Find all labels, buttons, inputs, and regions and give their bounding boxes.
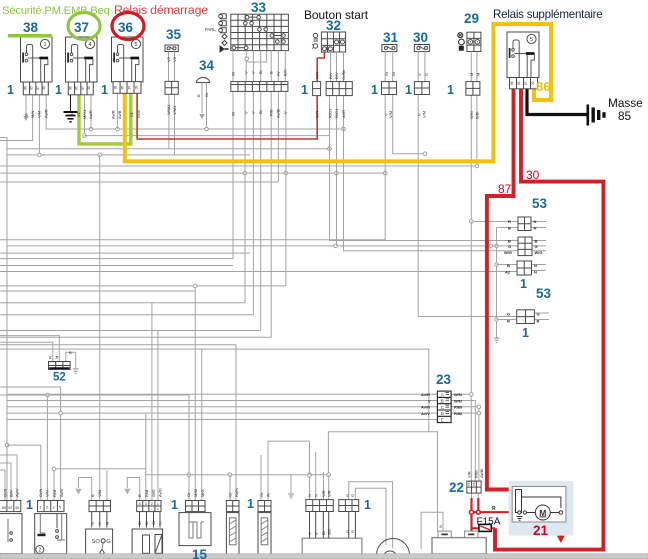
ground symbol masse 85 xyxy=(587,105,606,126)
svg-text:35: 35 xyxy=(166,27,182,42)
svg-text:M/N: M/N xyxy=(30,111,35,118)
wire 23 row A xyxy=(7,393,437,395)
wire 53 box1 right stubs xyxy=(531,221,546,223)
wire labels M conn xyxy=(307,490,332,535)
ground symbol under relay 37 xyxy=(64,95,78,122)
svg-text:B: B xyxy=(24,113,29,116)
wire bus y337.3 xyxy=(0,336,271,338)
svg-text:Gr/N: Gr/N xyxy=(38,488,43,497)
wire labels under relay 37 xyxy=(69,109,93,119)
wire labels 31 xyxy=(384,71,397,118)
svg-text:B: B xyxy=(441,399,444,404)
svg-text:22: 22 xyxy=(449,480,464,495)
svg-text:B: B xyxy=(137,494,142,497)
svg-text:R/Bl: R/Bl xyxy=(473,470,478,478)
wire to 52 left xyxy=(0,336,59,362)
switch 30 top xyxy=(414,45,429,82)
wires below 32 xyxy=(331,52,344,82)
svg-text:Gr/N: Gr/N xyxy=(3,488,8,497)
wire yellow relay36 to relais supplementaire pin 86 xyxy=(125,24,551,161)
svg-text:V: V xyxy=(97,522,102,525)
svg-text:B: B xyxy=(508,226,511,231)
svg-text:B/Bl: B/Bl xyxy=(475,112,480,119)
svg-text:Bl: Bl xyxy=(258,110,263,114)
solenoid SO OG xyxy=(86,501,113,556)
svg-text:34: 34 xyxy=(199,58,215,73)
svg-text:85: 85 xyxy=(30,86,34,90)
svg-text:30: 30 xyxy=(87,86,91,90)
svg-text:R/Bl: R/Bl xyxy=(454,411,462,416)
svg-text:R: R xyxy=(507,319,510,324)
svg-text:G: G xyxy=(535,244,538,249)
wire x189 down to 15 xyxy=(188,395,190,500)
svg-text:15: 15 xyxy=(192,547,208,559)
svg-text:W/M1: W/M1 xyxy=(166,104,171,115)
53 box1 xyxy=(518,217,531,231)
svg-text:1: 1 xyxy=(364,498,371,512)
svg-text:M: M xyxy=(104,522,109,525)
wire bus y349.1 long xyxy=(0,349,429,432)
junction long vertical x99 xyxy=(98,153,102,157)
svg-text:21: 21 xyxy=(533,523,549,538)
switch 31 top xyxy=(382,45,397,82)
wire to 52 right xyxy=(0,342,53,361)
block 29 xyxy=(467,32,481,81)
horn xyxy=(377,539,410,559)
svg-text:5: 5 xyxy=(530,37,533,43)
svg-text:R: R xyxy=(48,356,53,359)
connector 52 xyxy=(49,362,71,370)
svg-text:Av/V: Av/V xyxy=(15,488,20,497)
wire 53 box3 right stubs xyxy=(532,264,547,266)
wire labels 35 xyxy=(166,56,177,115)
wire labels 15 xyxy=(186,489,205,497)
wire bus y258.6 xyxy=(0,258,233,260)
svg-text:V: V xyxy=(417,73,422,76)
svg-text:V/M: V/M xyxy=(388,111,393,118)
wire bus y302.7 xyxy=(0,302,245,304)
svg-text:N: N xyxy=(534,270,537,275)
svg-text:Bl: Bl xyxy=(321,531,326,535)
svg-text:30: 30 xyxy=(42,86,46,90)
svg-text:85: 85 xyxy=(618,109,632,123)
svg-text:G/R: G/R xyxy=(315,72,320,79)
svg-text:15A: 15A xyxy=(467,481,471,486)
wire 23 out right 2 xyxy=(451,401,475,482)
svg-text:V: V xyxy=(314,532,319,535)
svg-text:R/V: R/V xyxy=(334,72,339,79)
wire relay37 pin3 xyxy=(84,95,86,136)
svg-text:Gr: Gr xyxy=(151,520,156,525)
wire F pins up xyxy=(145,413,147,500)
wire to left edge upper xyxy=(0,138,7,501)
svg-text:Av/R: Av/R xyxy=(111,110,116,119)
wire bus y265.5 xyxy=(0,265,233,267)
svg-text:R: R xyxy=(537,319,540,324)
COLORED WIRES xyxy=(79,24,603,550)
svg-text:M: M xyxy=(469,73,474,76)
svg-text:Or: Or xyxy=(231,111,236,116)
wire labels thermo2 xyxy=(259,492,271,497)
wire 34 left pin arrow xyxy=(201,97,203,113)
wire 15 pins up xyxy=(194,286,196,500)
wire labels 32 xyxy=(315,70,347,118)
wire labels 30 xyxy=(417,73,429,118)
wire B of relay 38 with down arrow xyxy=(25,95,27,117)
svg-text:N: N xyxy=(534,226,537,231)
svg-text:33: 33 xyxy=(251,0,267,15)
wire red fuse to battery branch xyxy=(472,512,496,531)
wire 33 col down short xyxy=(285,91,287,286)
connector 31 xyxy=(382,82,397,95)
svg-text:N: N xyxy=(534,219,537,224)
svg-text:M/G: M/G xyxy=(200,489,205,497)
53 box4 xyxy=(517,310,535,324)
svg-text:A: A xyxy=(441,392,444,397)
wire bus y431.8 to battery terminal xyxy=(328,432,437,532)
wire 33 col Or down xyxy=(232,91,234,258)
wire arrow left of F xyxy=(127,478,139,501)
component 15 xyxy=(179,501,211,546)
svg-text:V: V xyxy=(307,532,312,535)
svg-text:Av/V: Av/V xyxy=(421,411,430,416)
fuse F15A xyxy=(479,524,491,531)
svg-text:V: V xyxy=(251,111,256,114)
wire thermo1 Gr xyxy=(229,475,231,500)
wire thin red relay36 pin4 to bouton start xyxy=(137,52,324,139)
svg-text:Ar: Ar xyxy=(266,492,271,497)
wire thermo2 pins up xyxy=(260,455,262,500)
svg-text:G: G xyxy=(106,539,111,545)
svg-text:30: 30 xyxy=(413,30,428,45)
relay 37 xyxy=(66,37,98,95)
wire black masse 85 xyxy=(527,89,588,115)
svg-text:1: 1 xyxy=(43,42,46,48)
svg-text:87: 87 xyxy=(524,81,528,85)
wire 53 box4 right stubs xyxy=(534,312,549,314)
svg-text:V/N: V/N xyxy=(45,490,50,497)
wire N G wire 2 to horn xyxy=(355,488,386,545)
wire bus y166 to 29 xyxy=(0,95,477,166)
connector 23 xyxy=(437,391,451,423)
wire long vertical to solenoid xyxy=(99,155,101,500)
connector 35 bottom xyxy=(165,81,178,94)
svg-text:R/B: R/B xyxy=(269,109,274,116)
svg-text:Av/R: Av/R xyxy=(44,109,49,118)
svg-text:G: G xyxy=(507,312,510,317)
svg-text:2: 2 xyxy=(38,548,41,554)
wire Av/R bus relays xyxy=(46,95,343,129)
svg-text:B: B xyxy=(508,239,511,244)
wire labels 23 xyxy=(421,392,462,416)
relay 36 xyxy=(112,37,144,93)
svg-text:Av/N: Av/N xyxy=(421,405,430,410)
svg-text:B: B xyxy=(69,350,72,355)
svg-text:87: 87 xyxy=(128,86,132,90)
wire 23 row D xyxy=(7,412,437,414)
svg-text:23: 23 xyxy=(436,372,452,387)
wire 29 W/N down to 53 box1 xyxy=(471,95,518,221)
wire arrow left of solenoid xyxy=(79,478,92,501)
wire N G wire 1 to horn xyxy=(349,482,393,548)
svg-text:B/N: B/N xyxy=(283,69,288,76)
svg-text:86: 86 xyxy=(536,79,550,94)
svg-text:G: G xyxy=(508,244,511,249)
wire bus y135.6 xyxy=(85,135,331,137)
svg-text:M/V1: M/V1 xyxy=(82,109,87,119)
svg-text:V1: V1 xyxy=(129,111,134,117)
connector N 3x2 xyxy=(339,500,359,512)
wire labels 33 above xyxy=(231,69,288,76)
svg-text:1: 1 xyxy=(26,498,33,512)
svg-text:87: 87 xyxy=(81,86,85,90)
svg-text:Gr: Gr xyxy=(391,71,396,76)
svg-text:V/R: V/R xyxy=(467,471,472,478)
svg-text:Gr: Gr xyxy=(228,492,233,497)
svg-text:A2: A2 xyxy=(505,270,511,275)
icons left of 33 xyxy=(205,14,229,52)
svg-text:G/R: G/R xyxy=(315,111,320,118)
wire V/M relay 38 down to bus xyxy=(38,95,40,155)
connector 22 xyxy=(467,481,481,493)
svg-text:36: 36 xyxy=(118,20,134,35)
junction relay36 Av/R xyxy=(116,127,120,131)
junction relay37 Av/R xyxy=(89,127,93,131)
svg-text:V/M: V/M xyxy=(97,490,102,497)
svg-text:R/Bl: R/Bl xyxy=(454,405,462,410)
wire 53 box4 R stub xyxy=(497,319,517,321)
svg-text:1: 1 xyxy=(55,83,62,97)
svg-text:N: N xyxy=(534,263,537,268)
svg-text:Bl: Bl xyxy=(144,521,149,525)
svg-text:1: 1 xyxy=(101,83,108,97)
svg-text:1: 1 xyxy=(301,83,308,97)
ground arrow mid xyxy=(288,494,294,498)
svg-text:B: B xyxy=(196,94,201,97)
svg-text:V: V xyxy=(428,398,431,403)
svg-text:Av/R: Av/R xyxy=(421,392,430,397)
svg-text:85: 85 xyxy=(517,81,521,85)
wire labels 22 xyxy=(467,469,485,478)
svg-text:1: 1 xyxy=(405,83,412,97)
connector 30 xyxy=(414,82,429,95)
svg-text:1: 1 xyxy=(7,83,14,97)
switch block 33 xyxy=(231,14,289,50)
wire red 87 from relais supp xyxy=(487,89,514,490)
svg-text:R: R xyxy=(492,506,496,512)
svg-text:1: 1 xyxy=(447,83,454,97)
wire labels 29 xyxy=(469,73,481,119)
connector 32 quad xyxy=(326,82,352,96)
wire 23 row E xyxy=(7,418,437,420)
wire ground stub mid xyxy=(290,475,292,494)
svg-text:86: 86 xyxy=(68,86,72,90)
53 box2 xyxy=(518,237,532,256)
svg-text:F15A: F15A xyxy=(477,517,501,528)
wire labels thermo1 xyxy=(228,488,240,497)
wire relay2 pin2 to bus y395 xyxy=(46,395,48,500)
svg-text:Gr: Gr xyxy=(204,92,209,97)
svg-text:W/N: W/N xyxy=(469,111,474,119)
svg-text:Relais supplémentaire: Relais supplémentaire xyxy=(493,8,602,21)
wire solenoid V/M xyxy=(106,470,108,500)
svg-text:V: V xyxy=(283,111,288,114)
wires below 33 xyxy=(233,51,285,82)
wire 53 box2 B row xyxy=(330,96,519,241)
svg-text:4: 4 xyxy=(88,42,91,48)
wire 53 box2 G row long xyxy=(7,245,518,247)
wire labels F xyxy=(137,488,163,525)
svg-text:53: 53 xyxy=(536,286,552,301)
wire bus y395 xyxy=(0,394,189,396)
wire red arrow below motor xyxy=(560,514,563,536)
wire 52 ground link xyxy=(66,352,76,368)
connector strip 33 xyxy=(231,82,288,92)
svg-text:W/S: W/S xyxy=(151,489,156,497)
svg-text:M: M xyxy=(54,356,59,359)
svg-text:W/N: W/N xyxy=(454,392,462,397)
wire bus y291 xyxy=(0,290,195,292)
svg-text:86: 86 xyxy=(2,506,6,510)
svg-text:R/M: R/M xyxy=(144,490,149,497)
wire 35 pin2 down xyxy=(174,94,176,155)
connector 32 single xyxy=(313,82,321,96)
svg-text:29: 29 xyxy=(464,11,479,26)
svg-text:Av/R: Av/R xyxy=(88,110,93,119)
wire bus y148.8 from 35 xyxy=(168,94,170,149)
wire 30 V/M down to 53 box4 xyxy=(418,95,517,317)
svg-text:B: B xyxy=(535,239,538,244)
svg-text:37: 37 xyxy=(74,20,89,35)
svg-text:N: N xyxy=(314,494,319,497)
wire bus y182 xyxy=(0,181,278,183)
svg-text:W/G: W/G xyxy=(504,250,512,255)
wire bus y285.9 xyxy=(0,285,286,287)
block 32 bouton start xyxy=(312,32,346,52)
wire 33 col down to y330 xyxy=(260,91,262,330)
svg-text:B: B xyxy=(507,263,510,268)
wire 31 V down xyxy=(384,95,386,240)
svg-text:N: N xyxy=(158,522,163,525)
connector F 4321 xyxy=(132,501,163,555)
svg-text:Gr: Gr xyxy=(384,71,389,76)
svg-text:87: 87 xyxy=(9,506,13,510)
wire bus y239.7 xyxy=(0,239,385,241)
wire 33 V col down xyxy=(244,91,246,302)
svg-text:G/M: G/M xyxy=(136,110,141,118)
svg-text:Av: Av xyxy=(276,71,281,76)
svg-text:Av/Bl: Av/Bl xyxy=(276,109,281,118)
wire labels 52 xyxy=(48,350,73,359)
svg-text:R/V: R/V xyxy=(328,72,333,79)
junction V/M38 xyxy=(38,153,42,157)
svg-text:G: G xyxy=(424,73,429,76)
svg-text:V3: V3 xyxy=(166,56,171,62)
red ellipse 36 xyxy=(112,13,144,40)
wire red 22 pins down xyxy=(472,498,479,512)
svg-text:Bl: Bl xyxy=(258,70,263,74)
wire 33 col down xyxy=(252,91,254,314)
svg-text:W/N: W/N xyxy=(454,398,462,403)
svg-text:86: 86 xyxy=(510,81,514,85)
svg-text:V1: V1 xyxy=(76,111,81,117)
wire labels 53 boxes xyxy=(504,219,543,324)
svg-text:1: 1 xyxy=(520,277,527,291)
relay 2 bottom xyxy=(35,501,67,554)
wire 53 box2 WG row xyxy=(344,96,519,251)
svg-text:V/M: V/M xyxy=(37,111,42,118)
wire 23 row C xyxy=(7,406,437,408)
wire 33 col7 down xyxy=(277,91,279,182)
wire 53 box3 B stub xyxy=(497,264,518,266)
icons left of 29 xyxy=(458,33,465,51)
svg-text:V/R: V/R xyxy=(321,490,326,497)
wire bus y387 to thermo xyxy=(0,345,236,500)
bottom gray bar xyxy=(0,554,648,559)
svg-text:1: 1 xyxy=(247,497,254,511)
svg-text:B/N: B/N xyxy=(9,490,14,497)
svg-text:Ar/R: Ar/R xyxy=(341,110,346,118)
svg-text:B: B xyxy=(69,113,74,116)
relay 38 xyxy=(21,37,53,95)
svg-text:53: 53 xyxy=(532,196,548,211)
svg-text:31: 31 xyxy=(383,30,399,45)
svg-text:V/M1: V/M1 xyxy=(172,105,177,115)
svg-text:V/R: V/R xyxy=(327,490,332,497)
svg-text:Gr/Bk: Gr/Bk xyxy=(341,70,346,80)
svg-text:E: E xyxy=(441,418,444,423)
wire labels 33 below xyxy=(231,109,288,118)
wire 33 col down to y337 xyxy=(270,91,272,337)
svg-text:SO: SO xyxy=(92,539,101,545)
svg-text:1: 1 xyxy=(371,83,378,97)
thermo sensor 2 xyxy=(258,501,271,555)
wire labels under relay 38 xyxy=(24,109,49,118)
svg-text:Or: Or xyxy=(231,71,236,76)
wire 23 row B xyxy=(7,400,437,402)
starter motor 21 xyxy=(509,481,574,536)
wire bus y173.1 to 31 xyxy=(0,172,385,174)
svg-text:87: 87 xyxy=(36,86,40,90)
wire 53 box2 right stubs xyxy=(532,240,546,242)
svg-text:Gr: Gr xyxy=(186,492,191,497)
wire 22 pins down short xyxy=(471,493,473,498)
WIRES-GRAY xyxy=(0,91,549,549)
wire red R to motor contact xyxy=(472,511,519,513)
svg-text:M: M xyxy=(476,73,481,76)
svg-text:3Bl: 3Bl xyxy=(327,529,332,535)
svg-text:W/G: W/G xyxy=(535,250,543,255)
wire relay2 pin4 to bus y387 xyxy=(0,387,61,500)
wire labels bottom left connector xyxy=(3,488,20,497)
green underline 38 xyxy=(8,34,52,37)
wire M V/R up xyxy=(323,472,325,500)
svg-text:R: R xyxy=(508,219,511,224)
svg-text:M/Bl: M/Bl xyxy=(193,489,198,497)
wire bus y330.5 xyxy=(0,330,261,332)
wire labels N conn xyxy=(345,494,355,533)
svg-text:38: 38 xyxy=(23,20,39,35)
battery xyxy=(432,531,486,554)
svg-text:V/M: V/M xyxy=(422,111,427,118)
wire left connector pins up xyxy=(0,470,5,500)
junction red dots xyxy=(470,510,474,514)
connector M 4x2 xyxy=(306,500,333,512)
relais supplementaire relay xyxy=(507,32,539,89)
svg-text:5: 5 xyxy=(134,42,137,48)
53 box3 xyxy=(517,261,532,275)
svg-text:1: 1 xyxy=(171,498,178,512)
